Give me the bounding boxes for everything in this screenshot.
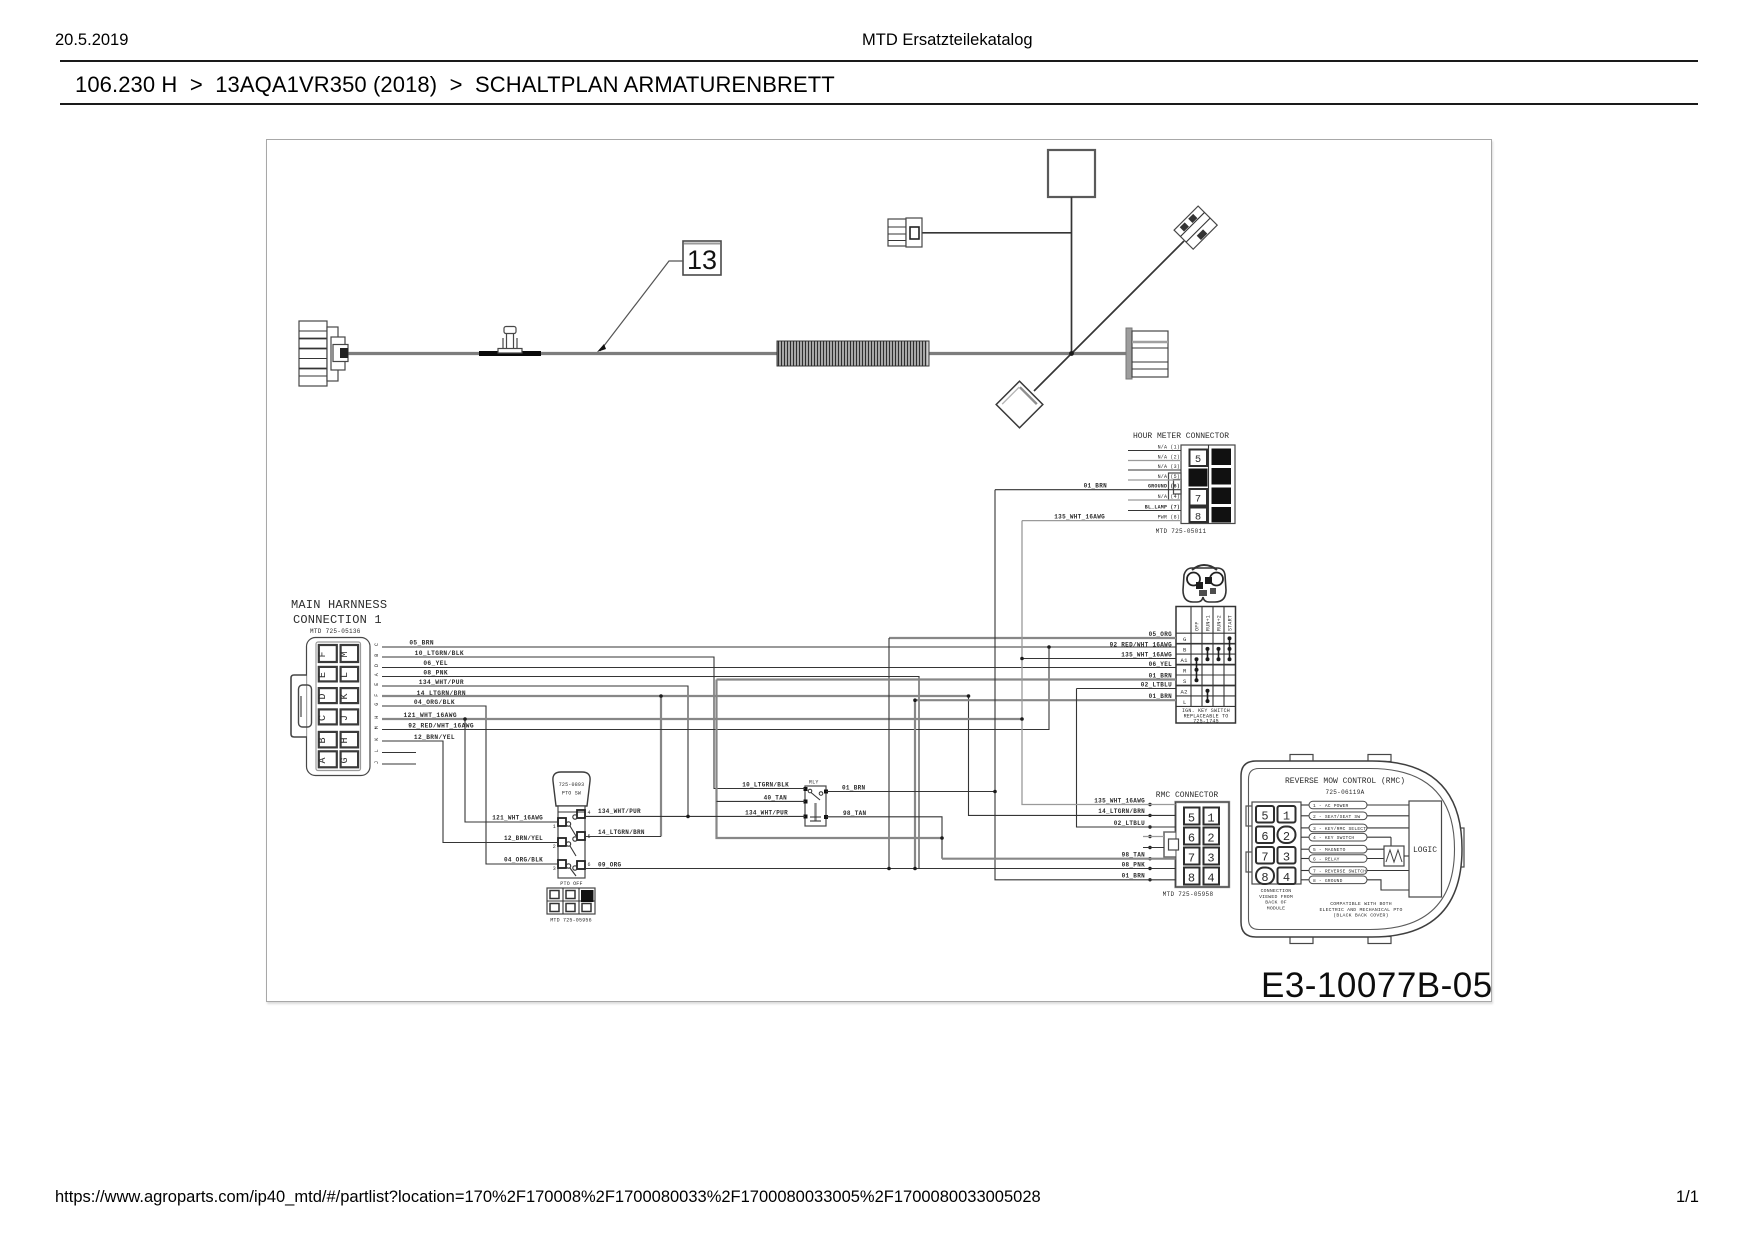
- key switch contact dots RUN+1 column: [1206, 647, 1210, 703]
- svg-text:725-06119A: 725-06119A: [1325, 789, 1364, 796]
- RMC module cavity 7: [1256, 847, 1274, 865]
- svg-text:98_TAN: 98_TAN: [843, 810, 867, 817]
- RMC module pin 8 wire and tag: [1301, 876, 1409, 890]
- main connector cavity F: [318, 645, 337, 662]
- footer url: [55, 1188, 1041, 1207]
- svg-text:6 - RELAY: 6 - RELAY: [1313, 857, 1340, 863]
- main connector cavity E: [318, 667, 337, 682]
- wire: hour meter pin 5 stub: [1128, 474, 1181, 480]
- svg-text:A1: A1: [1181, 657, 1189, 664]
- svg-text:M: M: [340, 651, 351, 657]
- svg-text:H: H: [374, 716, 380, 719]
- svg-text:4: 4: [588, 810, 591, 816]
- svg-text:02_LTBLU: 02_LTBLU: [1114, 820, 1145, 827]
- RMC module LOGIC block: [1409, 801, 1442, 897]
- RMC connector cavity 8: [1184, 868, 1200, 886]
- label: hour meter connector title: [1133, 432, 1229, 441]
- svg-text:OFF: OFF: [1195, 621, 1201, 631]
- header title: [862, 31, 1033, 50]
- wire: black taped segment near clip: [479, 351, 541, 356]
- RMC module note: compatibility: [1319, 901, 1402, 919]
- main connector cavity A: [318, 751, 337, 767]
- svg-text:D: D: [374, 664, 380, 667]
- main connector body: [307, 638, 371, 776]
- key switch column headers: [1195, 615, 1234, 631]
- key switch contact table: [1176, 607, 1236, 724]
- svg-text:1: 1: [553, 824, 556, 830]
- wire: diagonal branch up-right: [1072, 241, 1185, 354]
- wire: hour meter pin 2 stub: [1128, 455, 1181, 461]
- svg-text:12_BRN/YEL: 12_BRN/YEL: [414, 734, 455, 741]
- svg-text:M: M: [374, 726, 380, 729]
- hour meter pin cell 8: [1190, 508, 1208, 524]
- wire: hour meter PWR pin 8: [1128, 515, 1181, 521]
- breadcrumb: [75, 72, 835, 98]
- label 13 callout box: [683, 241, 721, 275]
- wire: main harness trunk right segment: [929, 352, 1127, 355]
- wire 98_TAN relay to RMC: [826, 817, 942, 859]
- main connector cavity C: [318, 709, 337, 724]
- main connector cavity K: [340, 688, 358, 703]
- RMC connector cavity 3: [1204, 848, 1220, 866]
- PTO pin numbers: [553, 810, 591, 872]
- svg-text:L: L: [340, 672, 351, 678]
- RMC module cavity 4: [1278, 868, 1296, 886]
- svg-text:H: H: [340, 737, 351, 743]
- svg-text:LOGIC: LOGIC: [1413, 846, 1437, 855]
- RMC module pin header grid: [1246, 802, 1301, 884]
- wire: RMC stub pin6: [1143, 836, 1164, 838]
- svg-text:MTD 725-05136: MTD 725-05136: [310, 628, 361, 635]
- svg-text:G: G: [1183, 636, 1187, 643]
- diagram frame: [266, 139, 1492, 1002]
- svg-text:2: 2: [553, 844, 556, 850]
- RMC module mounting tabs: [1290, 755, 1464, 944]
- svg-text:3: 3: [553, 866, 556, 872]
- svg-text:B: B: [374, 654, 380, 657]
- svg-text:5: 5: [1195, 454, 1201, 466]
- wire 135_WHT_16AWG main riser: [1022, 521, 1176, 805]
- svg-text:725-0893: 725-0893: [559, 782, 585, 788]
- wire labels at relay: [742, 782, 866, 817]
- svg-text:E3-10077B-05: E3-10077B-05: [1261, 966, 1492, 1002]
- svg-text:8: 8: [1261, 871, 1268, 885]
- wire: hour meter pin 3 stub: [1128, 464, 1181, 470]
- RMC wire junction dots: [1148, 803, 1151, 882]
- wire 02_LTBLU key row: [1077, 688, 1177, 690]
- svg-text:14_LTGRN/BRN: 14_LTGRN/BRN: [1098, 808, 1145, 815]
- RMC module note: connection viewed: [1259, 888, 1293, 911]
- svg-text:BACK OF: BACK OF: [1265, 900, 1287, 906]
- svg-text:01_BRN: 01_BRN: [1122, 873, 1146, 880]
- svg-text:S: S: [1183, 678, 1187, 685]
- wire: diagonal branch down-left to diamond connector: [1034, 354, 1072, 392]
- svg-text:7 - REVERSE SWITCH: 7 - REVERSE SWITCH: [1313, 869, 1366, 875]
- cable clip on trunk: [498, 327, 522, 354]
- svg-text:MTD 725-05011: MTD 725-05011: [1156, 528, 1207, 535]
- wire 121_WHT_16AWG drop to PTO pin1: [465, 719, 558, 822]
- label: RMC connector title: [1156, 791, 1219, 800]
- wire: 135_WHT_16AWG feed to hour meter pwr: [1022, 513, 1128, 520]
- RMC module outer shell: [1241, 761, 1462, 937]
- main connector cavity G: [340, 751, 358, 767]
- hour meter connector body: [1181, 445, 1235, 524]
- svg-text:START: START: [1228, 615, 1234, 631]
- svg-text:RLY: RLY: [809, 780, 819, 786]
- connector at right end of trunk: [1126, 328, 1168, 379]
- wire: hour meter pin 4 stub: [1128, 494, 1181, 500]
- svg-text:08_PNK: 08_PNK: [423, 669, 448, 676]
- hour meter pin cell 6 (blocked): [1189, 469, 1208, 487]
- RMC module pin 5 wire and tag: [1301, 845, 1384, 853]
- main connector cavity B: [318, 732, 337, 748]
- svg-text:1: 1: [1207, 812, 1214, 826]
- relay body: [804, 780, 829, 827]
- wire 10_LTGRN/BLK row2: [382, 657, 805, 789]
- svg-text:04_ORG/BLK: 04_ORG/BLK: [504, 857, 543, 864]
- RMC connector cavity 5: [1184, 808, 1200, 826]
- svg-text:3 - KEY/RMC SELECT: 3 - KEY/RMC SELECT: [1313, 826, 1366, 832]
- svg-text:6: 6: [588, 862, 591, 868]
- svg-text:J: J: [340, 715, 351, 721]
- key switch face symbol: [1183, 565, 1226, 602]
- corrugated tube on trunk: [777, 341, 929, 366]
- svg-text:MTD 725-05958: MTD 725-05958: [1163, 891, 1214, 898]
- RMC connector cavity 2: [1204, 828, 1220, 846]
- PTO terminal grid: [547, 888, 595, 914]
- svg-text:06_YEL: 06_YEL: [423, 660, 448, 667]
- svg-text:A: A: [374, 673, 380, 676]
- svg-text:2: 2: [1207, 832, 1214, 846]
- svg-text:01_BRN: 01_BRN: [842, 785, 866, 792]
- wire 04_ORG/BLK row7: [382, 706, 558, 864]
- svg-text:04_ORG/BLK: 04_ORG/BLK: [414, 699, 455, 706]
- wire 01_BRN key row L: [915, 699, 1176, 701]
- wire 06_YEL row3: [382, 667, 1176, 669]
- key switch contact dots START column: [1228, 636, 1232, 661]
- svg-text:RMC CONNECTOR: RMC CONNECTOR: [1156, 791, 1219, 800]
- label: RMC module title: [1285, 777, 1405, 786]
- RMC module cavity 3: [1278, 847, 1296, 865]
- wire labels at RMC connector: [1094, 797, 1145, 879]
- label: main harness title: [291, 598, 387, 627]
- svg-text:1: 1: [1283, 810, 1290, 824]
- diamond connector (rotated square): [996, 381, 1043, 428]
- svg-text:PTO OFF: PTO OFF: [560, 881, 582, 887]
- svg-text:7: 7: [1188, 852, 1195, 866]
- wire 121_WHT_16AWG row8: [382, 718, 1022, 720]
- svg-text:3: 3: [1283, 851, 1290, 865]
- RMC module cavity 2: [1278, 827, 1296, 845]
- label: drawing number E3-10077B-05: [1261, 966, 1493, 1005]
- svg-text:L: L: [374, 749, 380, 752]
- svg-text:725-1745: 725-1745: [1193, 719, 1219, 725]
- svg-text:N/A (4): N/A (4): [1158, 494, 1180, 500]
- svg-text:F: F: [318, 651, 329, 657]
- svg-text:134_WHT/PUR: 134_WHT/PUR: [745, 809, 788, 816]
- svg-text:J: J: [374, 761, 380, 764]
- svg-text:C: C: [318, 715, 329, 721]
- wire labels at PTO: [492, 808, 645, 868]
- RMC module pin 3 wire and tag: [1301, 824, 1409, 832]
- junction nodes: [463, 645, 1051, 870]
- svg-text:K: K: [374, 738, 380, 741]
- svg-text:L: L: [1183, 699, 1187, 706]
- svg-text:G: G: [374, 703, 380, 706]
- RMC module inner shell: [1249, 769, 1455, 930]
- svg-text:134_WHT/PUR: 134_WHT/PUR: [598, 808, 641, 815]
- wire 14_LTGRN/BRN row6: [382, 695, 969, 697]
- svg-text:92_RED/WHT_16AWG: 92_RED/WHT_16AWG: [408, 722, 474, 729]
- svg-text:HOUR METER CONNECTOR: HOUR METER CONNECTOR: [1133, 432, 1229, 441]
- wire: hour meter GROUND pin 6: [1128, 484, 1181, 490]
- svg-text:GROUND (6): GROUND (6): [1148, 484, 1180, 490]
- RMC module pin 1 wire and tag: [1301, 801, 1409, 809]
- svg-text:MAIN HARNNESS: MAIN HARNNESS: [291, 598, 387, 612]
- RMC module pin 4 wire and tag: [1301, 833, 1391, 846]
- svg-text:N/A (1): N/A (1): [1158, 445, 1180, 451]
- main connector cavity D: [318, 688, 337, 703]
- wire 08_PNK row4: [382, 677, 919, 869]
- RMC connector latch: [1164, 832, 1179, 857]
- svg-text:40_TAN: 40_TAN: [764, 794, 788, 801]
- svg-text:3: 3: [1207, 852, 1214, 866]
- svg-text:09_ORG: 09_ORG: [598, 861, 622, 868]
- svg-text:B: B: [1183, 647, 1187, 654]
- wire 09_ORG / 08_PNK bus: [585, 868, 1176, 870]
- svg-text:1 - AC POWER: 1 - AC POWER: [1313, 803, 1349, 809]
- svg-text:135_WHT_16AWG: 135_WHT_16AWG: [1094, 797, 1145, 804]
- svg-text:135_WHT_16AWG: 135_WHT_16AWG: [1054, 513, 1105, 520]
- rotated connector (top right of harness): [1174, 206, 1217, 249]
- wire 40_TAN relay coil feed: [717, 800, 806, 802]
- wire 05_BRN row1: [382, 646, 1176, 648]
- svg-text:K: K: [340, 693, 351, 699]
- svg-text:01_BRN: 01_BRN: [1149, 693, 1173, 700]
- svg-text:5: 5: [1261, 810, 1268, 824]
- wire: hour meter BL_LAMP pin 7: [1128, 505, 1181, 511]
- wire 01_BRN hour meter riser: [995, 490, 1176, 880]
- svg-text:C: C: [374, 643, 380, 646]
- main connector cavity L: [340, 667, 358, 682]
- hour meter right row blocked cells: [1212, 449, 1232, 523]
- svg-text:E: E: [318, 672, 329, 678]
- footer page number: [1676, 1188, 1699, 1207]
- PTO switch knob: [553, 772, 590, 806]
- leader line for label 13: [597, 261, 683, 352]
- svg-text:5 - MAGNETO: 5 - MAGNETO: [1313, 847, 1346, 853]
- svg-text:VIEWED FROM: VIEWED FROM: [1259, 894, 1293, 900]
- svg-text:F: F: [374, 694, 380, 697]
- svg-text:12_BRN/YEL: 12_BRN/YEL: [504, 835, 543, 842]
- svg-text:E: E: [374, 683, 380, 686]
- wire 14_LTGRN/BRN drop to RMC: [969, 696, 1176, 815]
- RMC connector body: [1176, 802, 1230, 887]
- svg-text:2 - SEAT/SEAT SW: 2 - SEAT/SEAT SW: [1313, 814, 1360, 820]
- hour meter latch: [1169, 473, 1182, 500]
- label: hour meter part number: [1156, 528, 1207, 535]
- wire labels at key switch: [1110, 631, 1173, 700]
- svg-text:PWR (8): PWR (8): [1158, 515, 1180, 521]
- svg-text:MTD 725-05956: MTD 725-05956: [550, 918, 592, 924]
- svg-text:2: 2: [1283, 830, 1290, 844]
- wire 01_BRN key row: [717, 678, 1177, 680]
- wire stubs NC pins: [382, 753, 416, 765]
- RMC module cavity 5: [1256, 806, 1274, 824]
- RMC connector cavity 6: [1184, 828, 1200, 846]
- svg-text:05_ORG: 05_ORG: [1149, 631, 1173, 638]
- label: main harness part number: [310, 628, 361, 635]
- RMC module pin 7 wire and tag: [1301, 867, 1409, 875]
- wire labels main harness rows: [404, 639, 474, 741]
- svg-text:5: 5: [1188, 812, 1195, 826]
- svg-text:R: R: [1183, 668, 1187, 675]
- svg-text:N/A (2): N/A (2): [1158, 455, 1180, 461]
- main connector left latch tab: [291, 675, 312, 737]
- svg-text:MODULE: MODULE: [1267, 905, 1285, 911]
- wire: vertical branch from box to trunk: [1071, 197, 1073, 354]
- wire 01_BRN riser to relay area: [717, 680, 943, 839]
- svg-text:8 - GROUND: 8 - GROUND: [1313, 878, 1343, 884]
- wire 134_WHT/PUR PTO to relay: [585, 815, 805, 817]
- RMC connector cavity 4: [1204, 868, 1220, 886]
- wire 05_ORG riser: [888, 638, 890, 869]
- header date: [55, 31, 128, 50]
- wire 134_WHT/PUR row5 riser: [382, 686, 688, 816]
- wire 01_BRN relay output: [826, 791, 995, 793]
- RMC module cavity 1: [1278, 806, 1296, 824]
- key switch contact dots RUN+2 column: [1217, 647, 1221, 661]
- svg-text:98_TAN: 98_TAN: [1122, 852, 1146, 859]
- svg-text:RUN+1: RUN+1: [1206, 615, 1212, 631]
- svg-text:8: 8: [1195, 512, 1201, 524]
- svg-text:N/A (5): N/A (5): [1158, 474, 1180, 480]
- svg-text:121_WHT_16AWG: 121_WHT_16AWG: [404, 712, 457, 719]
- svg-text:02_LTBLU: 02_LTBLU: [1141, 682, 1172, 689]
- svg-text:05_BRN: 05_BRN: [409, 639, 434, 646]
- svg-text:BL_LAMP (7): BL_LAMP (7): [1145, 505, 1180, 511]
- svg-text:PTO SW: PTO SW: [562, 791, 581, 797]
- RMC connector cavity 7: [1184, 848, 1200, 866]
- hour meter pin cell 7: [1190, 489, 1208, 506]
- svg-text:08_PNK: 08_PNK: [1122, 861, 1146, 868]
- connector P1 (left end of harness): [299, 321, 348, 386]
- svg-text:6: 6: [1188, 832, 1195, 846]
- wire 98_TAN RMC segment: [942, 858, 1176, 860]
- svg-text:4: 4: [1207, 872, 1214, 886]
- branch box (top accessory): [1048, 150, 1095, 197]
- svg-text:7: 7: [1261, 851, 1268, 865]
- svg-text:135_WHT_16AWG: 135_WHT_16AWG: [1121, 652, 1172, 659]
- label: RMC connector part number: [1163, 891, 1214, 898]
- PTO pin squares and contacts: [558, 810, 585, 876]
- svg-text:10_LTGRN/BLK: 10_LTGRN/BLK: [415, 650, 464, 657]
- svg-text:14_LTGRN/BRN: 14_LTGRN/BRN: [598, 829, 645, 836]
- svg-text:121_WHT_16AWG: 121_WHT_16AWG: [492, 815, 543, 822]
- wire 135_WHT_16AWG key branch: [1022, 658, 1176, 660]
- wire 01_BRN drop to ground bus: [914, 700, 916, 868]
- svg-text:D: D: [318, 693, 329, 699]
- wire: 01_BRN feed to hour meter ground: [995, 483, 1128, 490]
- wire 05_ORG to key switch: [889, 637, 1176, 639]
- svg-text:134_WHT/PUR: 134_WHT/PUR: [419, 679, 464, 686]
- svg-text:A2: A2: [1181, 689, 1188, 696]
- wire: branch to small connector: [922, 232, 1072, 234]
- small branch connector (2-way): [888, 218, 922, 247]
- svg-text:13: 13: [687, 245, 717, 275]
- svg-text:ELECTRIC AND MECHANICAL PTO: ELECTRIC AND MECHANICAL PTO: [1319, 907, 1402, 913]
- label: PTO OFF: [560, 881, 582, 887]
- svg-text:4 - KEY SWITCH: 4 - KEY SWITCH: [1313, 835, 1354, 841]
- wire 92_RED/WHT_16AWG row9: [382, 647, 1049, 730]
- svg-text:8: 8: [1188, 872, 1195, 886]
- svg-text:CONNECTION 1: CONNECTION 1: [293, 613, 382, 627]
- header rule 2: [60, 103, 1698, 105]
- svg-text:01_BRN: 01_BRN: [1084, 483, 1108, 490]
- PTO switch body: [558, 806, 585, 878]
- svg-text:(BLACK BACK COVER): (BLACK BACK COVER): [1333, 913, 1388, 919]
- svg-text:G: G: [340, 757, 351, 763]
- svg-text:10_LTGRN/BLK: 10_LTGRN/BLK: [742, 782, 789, 789]
- label: RMC module part number: [1325, 789, 1364, 796]
- wire: main harness trunk left segment: [345, 352, 777, 355]
- svg-text:7: 7: [1195, 494, 1201, 506]
- wire 12_BRN/YEL row10: [382, 741, 558, 843]
- RMC module internal relay coil: [1384, 846, 1409, 866]
- main connector cavity J: [340, 709, 358, 724]
- svg-text:A: A: [318, 757, 329, 763]
- RMC module pin 6 wire and tag: [1301, 855, 1384, 863]
- svg-text:COMPATIBLE WITH BOTH: COMPATIBLE WITH BOTH: [1330, 901, 1392, 907]
- key switch row labels: [1181, 636, 1189, 706]
- header rule 1: [60, 60, 1698, 62]
- svg-text:N/A (3): N/A (3): [1158, 464, 1180, 470]
- svg-text:6: 6: [1261, 830, 1268, 844]
- label: PTO grid part number: [550, 918, 592, 924]
- svg-text:CONNECTION: CONNECTION: [1261, 888, 1292, 894]
- svg-text:RUN+2: RUN+2: [1217, 615, 1223, 631]
- key switch note text: [1182, 708, 1230, 725]
- svg-text:B: B: [318, 737, 329, 743]
- RMC module pin 2 wire and tag: [1301, 812, 1409, 820]
- wire 14_LTGRN/BRN PTO pin5: [585, 836, 661, 838]
- RMC connector cavity 1: [1204, 808, 1220, 826]
- key switch contact dots OFF column: [1195, 657, 1199, 682]
- wire 02_LTBLU drop to RMC: [1077, 689, 1176, 828]
- wire: RMC stub pin2: [1143, 847, 1164, 849]
- junction: trunk branch node: [1069, 351, 1074, 356]
- hour meter pin cell 5: [1190, 450, 1208, 467]
- svg-text:4: 4: [1283, 871, 1290, 885]
- main connector cavity M: [340, 645, 358, 662]
- pin letters at wire exits: [374, 643, 380, 764]
- svg-text:REVERSE MOW CONTROL (RMC): REVERSE MOW CONTROL (RMC): [1285, 777, 1405, 786]
- wire: hour meter pin 1 stub: [1128, 445, 1181, 451]
- RMC module cavity 6: [1256, 827, 1274, 845]
- RMC module cavity 8: [1256, 868, 1274, 886]
- main connector cavity H: [340, 732, 358, 748]
- wire 14_LTGRN/BRN drop to PTO: [660, 696, 662, 837]
